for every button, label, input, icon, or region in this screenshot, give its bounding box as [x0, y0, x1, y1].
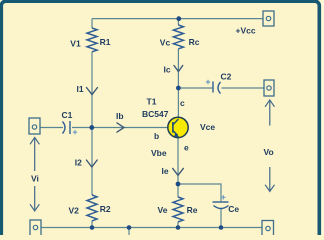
- svg-text:R2: R2: [100, 204, 111, 214]
- svg-text:C2: C2: [221, 72, 232, 82]
- svg-text:R1: R1: [100, 37, 111, 47]
- svg-text:Ve: Ve: [158, 205, 168, 215]
- svg-text:Ic: Ic: [164, 65, 171, 75]
- svg-text:Re: Re: [187, 205, 198, 215]
- svg-text:Vo: Vo: [264, 147, 274, 157]
- svg-text:V2: V2: [69, 205, 80, 215]
- svg-text:Rc: Rc: [189, 37, 200, 47]
- svg-text:Ie: Ie: [162, 166, 169, 176]
- svg-text:b: b: [154, 131, 159, 141]
- svg-text:I1: I1: [77, 84, 84, 94]
- svg-text:c: c: [180, 98, 185, 108]
- svg-text:Vce: Vce: [200, 122, 215, 132]
- svg-text:BC547: BC547: [142, 109, 169, 119]
- svg-text:V1: V1: [70, 38, 81, 48]
- svg-text:Vi: Vi: [31, 174, 39, 184]
- svg-text:I2: I2: [75, 158, 82, 168]
- svg-text:Vc: Vc: [160, 37, 171, 47]
- svg-text:Ce: Ce: [228, 204, 239, 214]
- svg-text:C1: C1: [62, 110, 73, 120]
- svg-text:T1: T1: [147, 97, 157, 107]
- svg-text:Ib: Ib: [116, 111, 124, 121]
- svg-text:+Vcc: +Vcc: [236, 26, 256, 36]
- svg-text:Vbe: Vbe: [151, 148, 167, 158]
- svg-text:e: e: [184, 143, 189, 153]
